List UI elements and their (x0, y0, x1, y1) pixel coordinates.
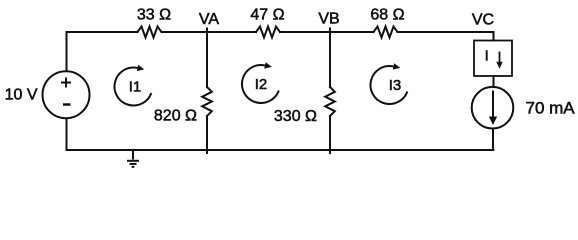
ammeter down arrow (496, 52, 502, 69)
resistor R1 33 ohm (zigzag body) (138, 27, 162, 38)
resistor R5 330 ohm (vertical zigzag body) (325, 87, 335, 116)
mesh current I3 (clockwise arc arrow and label) (370, 63, 407, 104)
wire node VB branch upper (junction tick to resistor) (329, 29, 331, 88)
wire: ammeter box to current source top (493, 76, 495, 87)
svg-text:VA: VA (199, 11, 219, 28)
wire left rail: top rail down to voltage source top (66, 32, 68, 70)
resistor R2 47 ohm (zigzag body) (256, 27, 280, 38)
current source I4 circle (70 mA) (472, 87, 514, 129)
voltage source plus sign (61, 78, 71, 88)
wire bottom rail (67, 149, 494, 151)
svg-text:47 Ω: 47 Ω (250, 7, 284, 24)
svg-text:I3: I3 (389, 77, 402, 94)
wire top rail: 68 ohm to node VC corner (398, 31, 494, 33)
mesh current I2 (clockwise arc arrow and label) (242, 62, 279, 103)
resistor R3 68 ohm (zigzag body) (374, 27, 398, 38)
wire top rail: 33 ohm to node VA to 47 ohm (162, 31, 257, 33)
wire top rail: 47 ohm to node VB to 68 ohm (280, 31, 374, 33)
svg-text:VC: VC (472, 12, 494, 29)
wire node VB branch lower (resistor to bottom rail junction) (329, 116, 331, 153)
svg-text:I: I (485, 48, 489, 65)
mesh current I1 (clockwise arc arrow and label) (114, 65, 151, 106)
voltage source minus sign (63, 103, 71, 106)
ammeter / current probe box (measures I) (474, 41, 512, 77)
svg-text:820 Ω: 820 Ω (154, 108, 197, 125)
wire top rail: source corner to 33 ohm resistor (67, 31, 138, 33)
svg-text:I1: I1 (129, 79, 142, 96)
wire node VA branch lower (resistor to bottom rail junction) (206, 116, 208, 153)
svg-text:33 Ω: 33 Ω (137, 7, 171, 24)
svg-text:70 mA: 70 mA (526, 99, 576, 118)
svg-text:68 Ω: 68 Ω (370, 7, 404, 24)
ground (127, 150, 139, 167)
svg-text:330 Ω: 330 Ω (274, 108, 317, 125)
wire left rail: voltage source bottom to bottom rail (66, 119, 68, 150)
resistor R4 820 ohm (vertical zigzag body) (202, 87, 212, 116)
svg-text:I2: I2 (255, 76, 268, 93)
voltage source V1 circle (43, 71, 90, 118)
wire right rail: VC corner into ammeter box (493, 32, 495, 41)
svg-text:VB: VB (318, 11, 339, 28)
wire: current source bottom to bottom rail (492, 130, 494, 151)
svg-text:10 V: 10 V (5, 87, 38, 104)
wire node VA branch upper (junction tick to resistor) (206, 29, 208, 88)
current source down arrow (489, 91, 497, 126)
